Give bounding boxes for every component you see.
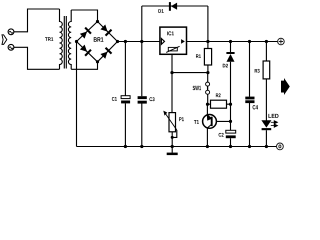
wire 0V rail: [77, 146, 277, 148]
capacitor C4 wire: [249, 42, 251, 147]
wire secondary top to bridge: [71, 10, 97, 22]
bridge diode D-topleft: [79, 27, 91, 39]
diode D2: [226, 52, 234, 62]
wire primary bottom: [14, 47, 60, 69]
transistor T1 base bar: [211, 117, 213, 126]
resistor R3 leads: [265, 42, 267, 121]
resistor R2 leads: [207, 103, 230, 105]
label R1: [196, 54, 201, 58]
potentiometer P1 wiper drop: [172, 130, 177, 137]
resistor R1: [204, 49, 211, 66]
output arrow: [281, 78, 290, 95]
transistor T1 circle: [203, 115, 217, 129]
wire emitter column: [206, 104, 208, 115]
label LED: [268, 114, 278, 118]
transistor T1 base wire: [213, 120, 231, 122]
LED cathode wire: [265, 130, 267, 146]
diode D1: [169, 2, 177, 11]
wire primary top: [14, 9, 60, 32]
transistor T1 emitter diagonal: [207, 115, 211, 119]
mains plug arrow: [2, 35, 7, 45]
transformer TR1 core: [64, 16, 66, 69]
label BR1: [94, 37, 104, 42]
label SW1: [193, 86, 201, 90]
label D2: [223, 64, 228, 68]
capacitor C2 wire: [230, 104, 232, 146]
capacitor C3 wire: [141, 42, 143, 147]
label C1: [112, 97, 117, 101]
wire secondary bottom to bridge: [71, 62, 97, 70]
label R3: [255, 69, 260, 73]
switch SW1 wires: [207, 73, 209, 105]
switch SW1 contacts: [206, 82, 210, 86]
label C3: [149, 97, 154, 101]
LED light arrows: [271, 121, 278, 128]
transistor T1 collector wire: [206, 128, 208, 147]
capacitor C4: [245, 97, 254, 100]
wire raw DC rail: [118, 41, 160, 43]
label R2: [216, 93, 221, 97]
wire bridge minus down: [76, 42, 78, 147]
wire D1 riser right: [207, 6, 209, 42]
capacitor C1: [121, 96, 130, 99]
transformer TR1 secondary winding: [68, 10, 71, 69]
label P1: [179, 117, 184, 121]
transformer TR1 primary winding: [60, 9, 63, 69]
wire D1 top: [142, 5, 208, 7]
IC1 regulator box: [160, 27, 187, 54]
label D1: [158, 9, 163, 13]
AC terminal top: [8, 29, 14, 35]
label C4: [253, 105, 258, 109]
potentiometer P1 bottom lead: [171, 132, 173, 147]
IC1 bottom pin: [171, 54, 173, 72]
label TR1: [45, 37, 53, 41]
capacitor C2: [226, 130, 236, 133]
LED cathode bar: [262, 128, 272, 130]
bridge rectifier BR1 diamond: [77, 22, 118, 62]
label C2: [219, 133, 224, 137]
transistor T1 collector diagonal: [207, 125, 211, 128]
bridge diode D-topright: [100, 24, 112, 36]
label T1: [194, 120, 199, 124]
potentiometer P1 arrow: [165, 113, 177, 130]
diode D2 wires: [230, 42, 232, 105]
bridge diode D-bottomleft: [79, 44, 91, 56]
bridge diode D-bottomright: [100, 47, 112, 59]
wire regulated output rail: [187, 41, 278, 43]
resistor R3: [263, 61, 270, 79]
terminal plus: [278, 38, 285, 45]
capacitor C3: [138, 96, 147, 99]
IC1 output arrow: [181, 39, 185, 44]
IC1 adj symbol: [168, 47, 177, 51]
ground bar: [167, 153, 178, 156]
resistor R1 leads: [207, 42, 209, 73]
capacitor C1 wire: [124, 42, 126, 147]
ground stub: [171, 147, 173, 153]
potentiometer P1 body: [169, 113, 176, 132]
resistor R2: [211, 100, 227, 108]
potentiometer P1 top lead: [171, 73, 173, 113]
terminal 0V: [277, 143, 284, 150]
IC1 input arrow: [161, 39, 164, 45]
LED triangle: [261, 120, 271, 127]
wire D1 riser left: [141, 6, 143, 42]
wire adj node horizontal: [172, 72, 208, 74]
label IC1: [167, 31, 174, 35]
AC terminal bottom: [8, 44, 14, 50]
